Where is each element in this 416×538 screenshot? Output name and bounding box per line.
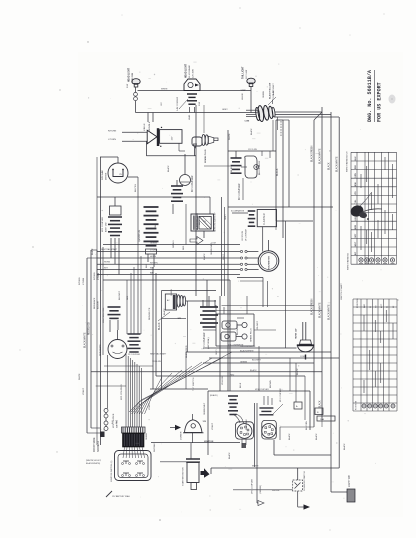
svg-text:HARNESS: HARNESS [97,440,100,452]
wire: fan extras [129,352,232,412]
svg-text:BLACK: BLACK [91,248,94,255]
main coupler 6P/1 (natural) [200,306,218,308]
svg-text:L/TURN: L/TURN [150,250,158,252]
svg-text:BLACK: BLACK [276,168,279,176]
svg-text:IGNITION COIL: IGNITION COIL [103,307,105,323]
wire: bus lower [103,279,230,281]
svg-text:BLACK: BLACK [296,368,299,375]
svg-text:R/TURN: R/TURN [108,131,117,133]
connector: disc stack [128,333,141,335]
wire: pointer to coupler label [179,99,188,109]
svg-text:BRN: BRN [355,224,357,229]
svg-text:WHT: WHT [355,241,357,246]
svg-text:WHT: WHT [155,223,157,228]
svg-text:BLACK: BLACK [163,308,166,315]
svg-text:WHITE: WHITE [79,373,81,380]
svg-text:4P/3 COUPLER: 4P/3 COUPLER [252,479,254,494]
svg-text:BLACK/YELLOW: BLACK/YELLOW [196,212,199,230]
svg-text:BLACK: BLACK [250,128,253,135]
wire: box corner below hourmeter [237,277,263,279]
svg-text:12V 21W: 12V 21W [132,72,134,82]
svg-text:GREY: GREY [225,214,227,220]
svg-text:BLACK: BLACK [315,433,318,440]
svg-text:BLACK/WHITE: BLACK/WHITE [84,332,87,348]
wire: frame top [100,156,118,158]
ink blot artifact [349,204,365,219]
wire: bus COM [103,244,240,246]
svg-text:SOLENOID SWITCH: SOLENOID SWITCH [304,471,306,491]
svg-text:BLACK: BLACK [228,452,231,459]
wire: long horizontal y207 [228,206,333,208]
svg-text:12V 3.4W: 12V 3.4W [246,70,248,79]
svg-text:RED: RED [183,245,185,250]
svg-text:GREEN/WHT: GREEN/WHT [204,402,206,415]
wire: engine frame corner [162,290,217,292]
svg-text:RESISTOR: RESISTOR [138,230,141,242]
wire: long horizontal y221 [276,220,313,222]
svg-text:NEW USE BATTERY: NEW USE BATTERY [214,212,217,232]
wire: lamp bus lower [136,112,257,114]
smudge artifact right margin [389,95,396,104]
svg-text:METER: METER [106,172,108,180]
scan noise field [132,372,133,373]
svg-text:STARTER MOTOR: STARTER MOTOR [182,467,185,486]
svg-text:R/TURN: R/TURN [79,277,81,285]
svg-text:RED: RED [230,375,235,377]
wire: short drop at grommet exit [277,117,279,130]
wire: solenoid feed [211,467,339,469]
svg-text:L/TURN: L/TURN [98,272,100,280]
svg-text:GREY: GREY [222,109,228,111]
svg-text:BLK/WHITE: BLK/WHITE [237,324,239,335]
wire: vertical x285.5 [285,221,287,348]
svg-text:POSITION: POSITION [356,400,358,410]
svg-text:WHITE: WHITE [252,466,259,468]
svg-text:BLACK/RED: BLACK/RED [185,345,188,358]
svg-text:BLK/WHT: BLK/WHT [119,290,121,300]
svg-text:BLACK/GREEN: BLACK/GREEN [311,145,314,162]
svg-text:LEAD: LEAD [188,114,191,120]
wire: bus R/TURN with junction [97,263,240,265]
svg-text:HEAD LIGHT: HEAD LIGHT [128,67,131,82]
scan speckles [239,7,240,8]
wire: right vertical BLACK/WHITE [321,107,323,420]
svg-text:12V 3.4W: 12V 3.4W [101,169,104,180]
connector: round coupler B [259,407,273,409]
svg-text:3.4W COUPLER: 3.4W COUPLER [177,96,179,111]
ignition coil T1 [108,306,121,308]
wire: coupler tails [110,238,112,258]
flasher F1 [248,210,256,212]
lamp: head light left [132,79,140,85]
wire: bus-to-stack droppers [126,280,128,334]
svg-text:R/TURN: R/TURN [94,272,96,280]
svg-text:12V 3.4W: 12V 3.4W [248,149,257,151]
svg-text:GREEN: GREEN [240,362,248,364]
svg-text:RED/BLACK: RED/BLACK [88,322,91,335]
ignition switch S1 [115,451,152,481]
svg-text:TAIL LIGHT: TAIL LIGHT [242,66,245,79]
arrow: feed into bell area [170,427,175,429]
svg-text:HORN: HORN [104,262,110,264]
wire: cable lines into grommet [246,109,259,111]
wire: bends near grommet [283,119,289,121]
fuse FU3 [317,416,335,421]
wire: bus black/white [186,351,331,353]
wire: starter feed [192,433,194,443]
svg-text:POSITION: POSITION [357,298,359,308]
wire: verticals x276 x283 [275,120,277,221]
wire: pointer coupler B label [273,404,283,414]
svg-text:RED/BLACK: RED/BLACK [93,297,96,309]
svg-text:WHITE: WHITE [229,133,231,140]
svg-text:HI-LO BEAM: HI-LO BEAM [188,65,191,78]
wire: lamp bus upper [138,90,252,92]
svg-text:L/B: L/B [355,217,357,221]
svg-text:4P/1 COUPLER: 4P/1 COUPLER [192,175,194,192]
svg-text:BLACK: BLACK [167,165,170,172]
svg-text:6P/1 COUPLER: 6P/1 COUPLER [280,388,282,402]
svg-text:ASSY LTD: ASSY LTD [105,222,108,232]
svg-text:21W: 21W [199,102,201,106]
meter M1 [108,163,128,183]
svg-text:GREEN: GREEN [146,432,148,440]
capacitor C1 [171,185,183,187]
svg-text:WHT/BLK: WHT/BLK [154,442,156,452]
svg-text:12V: 12V [172,136,174,140]
svg-text:(WHITE,VIOLET,: (WHITE,VIOLET, [86,460,102,462]
svg-text:BLACK: BLACK [288,433,291,440]
svg-text:BLACK: BLACK [158,322,161,330]
solenoid switch K1 [293,480,303,491]
svg-text:BLK: BLK [146,264,148,268]
starter motor M2 [186,458,200,460]
lamp: tail light [247,78,255,84]
svg-text:YELLOW: YELLOW [222,375,224,385]
connector: 4P/1 coupler brake [231,157,242,159]
svg-text:GREEN/WHT: GREEN/WHT [211,242,213,255]
svg-text:LIGHT TAB: LIGHT TAB [348,475,351,487]
svg-text:FRONT WIRE: FRONT WIRE [94,437,96,452]
svg-text:RED/BLK: RED/BLK [149,121,151,131]
svg-text:GREY: GREY [216,349,218,355]
horn HO1 [147,130,157,143]
svg-text:GRY: GRY [355,233,357,238]
svg-text:VIOLET: VIOLET [212,422,214,430]
flasher can F2 [108,340,127,359]
svg-text:TILT SWITCH: TILT SWITCH [193,377,195,391]
svg-text:RED/WHITE: RED/WHITE [149,307,151,320]
svg-text:IGNITION SWITCH (X): IGNITION SWITCH (X) [111,460,113,482]
svg-text:KEY: KEY [150,268,155,270]
svg-text:RED: RED [355,164,357,169]
wire: left harness vertical RED/BLACK [86,258,88,433]
wire: bus red [156,375,305,377]
wire: bottom frame [208,390,310,392]
svg-text:VIOLET: VIOLET [83,387,85,395]
svg-text:SPRING: SPRING [173,240,175,248]
svg-text:12V 85C/M: 12V 85C/M [242,231,244,241]
svg-text:LIGHT: LIGHT [223,253,225,260]
wire: bus HORN with junction [97,257,240,259]
resistor R1 [144,206,159,208]
wire: right vertical BLACK [330,112,332,492]
svg-text:6P/1 COUPLER: 6P/1 COUPLER [121,384,123,400]
svg-text:L/TURN: L/TURN [108,139,116,141]
svg-text:BLACK: BLACK [328,162,331,170]
svg-text:YEL/WHT: YEL/WHT [257,320,259,330]
fuse FU1 [294,402,302,409]
connector: bullet terminals front harness [104,409,108,413]
wire: horn box tail [178,144,180,152]
wire: bus green [203,362,314,364]
svg-text:NEUTRAL/START: NEUTRAL/START [150,353,167,356]
wire: descending pair to ground [254,403,256,467]
svg-text:6P/1 COUPLER: 6P/1 COUPLER [204,332,206,349]
svg-text:12V BATTERY 35AH: 12V BATTERY 35AH [112,495,130,498]
svg-text:BLACK: BLACK [230,164,233,172]
svg-text:COM: COM [245,121,250,123]
svg-text:2P COUPLER: 2P COUPLER [246,228,248,241]
svg-text:L/BLUE: L/BLUE [242,92,244,100]
wire: coupler stubs top right [269,151,271,158]
svg-text:BLUE: BLUE [240,382,242,388]
wire: connector fan-out to switch [123,447,125,458]
svg-text:BLK: BLK [355,156,357,161]
wire: engine area links [203,329,216,331]
wire: starter feed line [160,461,187,463]
svg-text:L/BLUE: L/BLUE [144,123,146,131]
svg-text:HOURMETER: HOURMETER [269,256,271,270]
svg-text:BLACK/WHITE: BLACK/WHITE [319,302,322,318]
svg-text:GREEN: GREEN [150,243,158,245]
svg-text:BLACK: BLACK [203,253,206,260]
svg-text:VIO: VIO [355,191,357,195]
svg-text:GREEN: GREEN [263,90,265,98]
svg-text:KEY: KEY [104,268,109,270]
svg-text:BLACK/WHITE: BLACK/WHITE [336,156,339,172]
connector: 6P/1 coupler [110,206,122,215]
connector: beam spool [187,93,197,95]
svg-text:BLK/GRN: BLK/GRN [306,421,308,430]
wire: bus black [91,371,322,373]
wire: horn loop [145,141,147,156]
svg-text:DWG. No. 56011B/A: DWG. No. 56011B/A [367,69,373,122]
horn HO2 dome [302,322,304,340]
svg-text:1.5W: 1.5W [241,90,246,92]
wire: solenoid tail with arrow [297,491,299,507]
svg-text:12V 3.4W: 12V 3.4W [273,90,275,99]
svg-text:BLK/WHT: BLK/WHT [252,360,262,362]
svg-text:SPARK PLUG: SPARK PLUG [250,328,253,342]
wire: right link y427 [280,426,314,428]
wire: bus KEY with junction [97,269,240,271]
svg-text:WIRE HARNESS CH: WIRE HARNESS CH [346,151,349,172]
svg-text:RED: RED [127,295,129,300]
wire: mid vertical x220 pair [221,197,223,296]
svg-text:GREEN: GREEN [171,288,173,296]
svg-text:BLACK/WHITE: BLACK/WHITE [240,350,254,353]
svg-text:12V/3.4W: 12V/3.4W [152,361,161,363]
pen slash mark [106,491,112,497]
svg-text:(NATURAL): (NATURAL) [207,337,210,349]
wire: left harness vertical 3 [102,247,104,355]
wire: pointer to grommet label [268,97,276,105]
svg-text:4P/6 COUPLER: 4P/6 COUPLER [255,389,269,391]
hour meter HM1 [258,251,279,272]
regulator/rectifier U1 [165,294,176,310]
connector: round coupler A [228,395,238,397]
spark plug caps [242,322,247,327]
wire: right vertical BLACK/GREEN [313,120,315,427]
magneto bell [185,420,203,433]
svg-text:GRN: GRN [355,173,357,178]
wire: solenoid left lead [233,489,293,491]
wire: ignition line [151,442,240,444]
wire: tail light drop [250,91,252,113]
svg-text:12V 45W: 12V 45W [193,68,195,78]
oil pressure switch S2 [180,175,191,186]
fuse FU2 [315,408,323,415]
svg-text:YELLOW/WHITE: YELLOW/WHITE [228,345,244,347]
svg-text:BLK: BLK [199,221,201,225]
wire: bus yellow/white [205,347,297,349]
connector: main multi-pin (black) [122,427,146,433]
wire: mid vertical x207 [206,280,208,307]
wire: ground arrow [257,502,258,504]
wire: left bus bends [96,250,98,280]
wire: right vertical BLACK/WHITE 2 [338,117,340,468]
wire: left harness vertical BLACK/WHITE [90,250,92,428]
svg-text:L/TURN: L/TURN [83,277,85,285]
wire: vertical x289 [288,120,290,207]
wire: left border vertical [96,157,98,445]
svg-text:R/TURN: R/TURN [150,262,158,264]
svg-text:BLK/ORANGE: BLK/ORANGE [258,160,261,175]
svg-text:21W: 21W [127,84,129,88]
wire: bus BAT [97,274,240,276]
svg-text:HORN 12V: HORN 12V [296,328,298,339]
svg-text:BLK/WHT: BLK/WHT [98,300,100,309]
wire: bundle verticals [125,354,127,427]
svg-text:BLACK/GREEN: BLACK/GREEN [311,298,314,315]
svg-text:WHITE/BLK: WHITE/BLK [246,419,248,430]
flasher unit house symbol [184,79,200,91]
svg-text:BLACK/WHITE: BLACK/WHITE [328,304,331,320]
svg-text:WIRE HARNESS: WIRE HARNESS [347,253,350,270]
wire: mid vertical x196 [195,105,197,296]
wire: battery arrow [190,237,203,245]
wire: bus com [209,357,339,359]
wire: meter feed vertical [137,177,139,334]
engine block E1 [215,314,217,346]
svg-text:BLACK: BLACK [250,369,257,372]
svg-text:SHOWN: SHOWN [272,490,280,492]
svg-text:ILLUMINATION: ILLUMINATION [231,210,245,213]
wire: resistor tails [147,254,149,262]
svg-text:4P/2 COUPLER: 4P/2 COUPLER [113,413,115,428]
svg-text:HEAD LIGHT: HEAD LIGHT [184,63,187,78]
svg-text:B/W: B/W [355,182,357,186]
wire: harness to right verticals [275,111,322,113]
wire: bus L/TURN with junction [97,251,240,253]
wire: harness fan [132,358,213,414]
svg-text:6P/1 COUPLER: 6P/1 COUPLER [102,217,104,232]
svg-text:BLACK/WHITE: BLACK/WHITE [319,148,322,164]
battery BT1 [191,214,214,231]
wire: vertical x228 [227,130,229,391]
svg-text:NEUTRAL/START: NEUTRAL/START [101,248,118,251]
table: wiring chart upper [350,152,352,264]
svg-text:4P/1 COUPLER: 4P/1 COUPLER [239,183,241,200]
svg-text:SWITCH CHART: SWITCH CHART [340,283,343,300]
brake light switch S3 [245,156,257,178]
svg-text:RED/WHITE: RED/WHITE [100,344,102,356]
svg-text:(BLACK): (BLACK) [210,394,218,397]
svg-text:BLK/YEL: BLK/YEL [135,183,137,192]
svg-text:BLACK/YELLOW: BLACK/YELLOW [269,83,272,99]
spark plug lead P1 [192,137,202,146]
table: switch position chart lower [352,299,354,411]
connector: head light bullets [134,92,138,96]
svg-text:BROWN: BROWN [270,380,272,388]
svg-text:IGNITION: IGNITION [204,441,214,443]
svg-text:HORN: HORN [150,256,156,258]
wire: frame line y197 [97,196,210,198]
wire: coupler B tail [273,440,275,455]
svg-text:ACC: ACC [380,303,383,308]
svg-text:COM: COM [300,356,305,358]
svg-text:L/GREEN: L/GREEN [181,431,183,440]
wire: y455 links [321,420,323,427]
svg-text:FOR US EXPORT: FOR US EXPORT [377,82,383,122]
wire: horizontals y305 y310 [222,305,315,307]
connector: main harness grommet [255,104,276,122]
light tab terminal [331,491,347,493]
svg-text:SPARK PLUG: SPARK PLUG [204,149,207,163]
svg-text:2P COUPLER: 2P COUPLER [128,354,141,356]
svg-text:BLACK/WHITE): BLACK/WHITE) [86,462,101,465]
wire: mid-left long verticals [152,267,154,389]
svg-text:WHITE: WHITE [161,89,168,91]
svg-text:VIOLET: VIOLET [149,402,151,410]
svg-text:BLACK: BLACK [343,443,346,450]
svg-text:FLASHER: FLASHER [263,213,266,225]
wire: verticals below engine [258,346,260,391]
